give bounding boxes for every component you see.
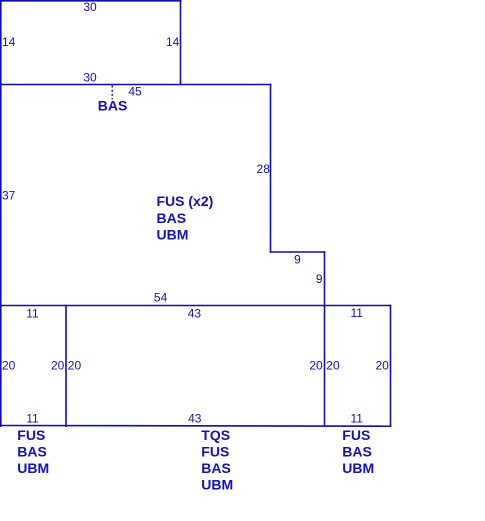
svg-text:UBM: UBM — [157, 227, 189, 243]
svg-text:45: 45 — [128, 85, 142, 99]
svg-text:20: 20 — [2, 359, 16, 373]
svg-text:30: 30 — [83, 0, 97, 14]
svg-text:20: 20 — [375, 359, 389, 373]
svg-text:14: 14 — [2, 35, 16, 49]
wire step horizontal — [271, 251, 325, 253]
svg-text:20: 20 — [309, 359, 323, 373]
svg-text:37: 37 — [2, 189, 16, 203]
svg-text:UBM: UBM — [17, 460, 49, 476]
svg-text:FUS: FUS — [17, 427, 45, 443]
wire horizontal divider y=84.5 — [1, 84, 271, 86]
wire horizontal divider y=305.5 — [1, 305, 391, 307]
svg-text:28: 28 — [257, 162, 271, 176]
wire right edge of upper room — [180, 1, 182, 85]
svg-text:BAS: BAS — [157, 210, 187, 226]
svg-text:43: 43 — [188, 306, 202, 320]
wire divider left-middle bottom rooms — [65, 306, 67, 427]
svg-text:43: 43 — [188, 411, 202, 425]
svg-text:BAS: BAS — [98, 98, 128, 114]
wire right edge of bottom-right room — [390, 306, 392, 427]
wire top edge of upper room — [1, 0, 181, 2]
svg-text:TQS: TQS — [201, 427, 230, 443]
svg-text:11: 11 — [350, 306, 363, 320]
svg-text:11: 11 — [26, 306, 39, 320]
svg-text:20: 20 — [326, 359, 340, 373]
svg-text:BAS: BAS — [201, 460, 231, 476]
wire bottom edge — [1, 425, 391, 428]
wire right edge of main room upper part — [270, 85, 272, 253]
svg-text:14: 14 — [166, 35, 180, 49]
svg-text:54: 54 — [154, 290, 168, 304]
svg-text:20: 20 — [68, 359, 82, 373]
svg-text:BAS: BAS — [342, 443, 372, 459]
svg-text:UBM: UBM — [201, 477, 233, 493]
wire left edge full height — [0, 1, 2, 426]
wire dotted marker at BAS — [111, 86, 113, 100]
svg-text:FUS: FUS — [201, 444, 229, 460]
wire right edge of step / divider middle-right — [324, 252, 326, 426]
svg-text:UBM: UBM — [342, 460, 374, 476]
svg-text:FUS (x2): FUS (x2) — [157, 193, 214, 209]
svg-text:FUS: FUS — [342, 427, 370, 443]
svg-text:11: 11 — [26, 411, 39, 425]
svg-text:9: 9 — [316, 272, 323, 286]
svg-text:11: 11 — [350, 411, 363, 425]
svg-text:9: 9 — [294, 253, 301, 267]
svg-text:BAS: BAS — [17, 443, 47, 459]
svg-text:30: 30 — [83, 71, 97, 85]
svg-text:20: 20 — [51, 359, 65, 373]
